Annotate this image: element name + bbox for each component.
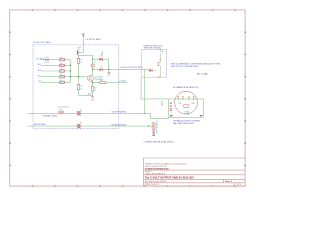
svg-text:+5 IN 5V BUS: +5 IN 5V BUS: [85, 39, 101, 41]
junction dot wire A / vertical: [144, 113, 145, 114]
resistor-box RB2 on wire 2: [60, 63, 65, 67]
capacitor C1: [57, 107, 69, 115]
diode D3 on wire A: [77, 109, 82, 115]
transistor Q3 in box B2: [158, 49, 163, 77]
svg-text:SIGNAL-N GND: SIGNAL-N GND: [43, 115, 58, 118]
wire A (upper ground rail): [28, 112, 145, 114]
svg-text:R4: R4: [100, 80, 102, 82]
wire R2 bottom to emitter node: [79, 90, 93, 96]
svg-text:Rev 1: Rev 1: [226, 181, 233, 183]
svg-text:1N48: 1N48: [102, 51, 104, 56]
transistor Q2 power (big circle): [88, 75, 104, 81]
svg-text:+5V IN 1: +5V IN 1: [35, 59, 45, 61]
svg-text:1k: 1k: [60, 69, 62, 71]
svg-text:1k: 1k: [94, 90, 96, 92]
diode D5 in box B2: [149, 69, 160, 79]
wire Q1 to J2: [92, 67, 94, 75]
svg-text:TAILORED TWITH MOD: TAILORED TWITH MOD: [173, 122, 195, 125]
speaker LS1 circle pair: [152, 122, 155, 129]
diode D2: [100, 67, 103, 72]
pin numbers bottom: [170, 115, 202, 117]
svg-text:EFF-TER S MODEL: EFF-TER S MODEL: [144, 48, 161, 50]
wire branch to socket top: [141, 77, 168, 99]
svg-text:TML: TML: [178, 103, 182, 105]
resistor-box RB1 on wire 1: [60, 57, 65, 61]
wire R1 to wire4: [78, 63, 80, 77]
svg-text:(+5V) B: (+5V) B: [44, 62, 50, 64]
transistor Q1 (small circle): [91, 62, 96, 68]
box: subsystem dashed box B1: [33, 45, 119, 128]
svg-text:D2: D2: [100, 67, 102, 69]
pin numbers top: [178, 95, 195, 98]
diode D1: [99, 51, 104, 61]
junction dot J4: [92, 82, 93, 83]
wire bus vertical: [69, 60, 71, 83]
junction dot J3: [108, 69, 109, 70]
resistor-box RB4 on wire 4: [60, 74, 65, 78]
wire A to socket bottom: [144, 113, 168, 118]
tube socket V1 big circle: [175, 91, 198, 114]
junction dot J2: [92, 69, 93, 70]
svg-text:1k: 1k: [60, 74, 62, 76]
resistor R1 (left chain top): [77, 55, 82, 64]
wire R3 to ground: [92, 91, 94, 96]
ground G1: [91, 97, 95, 102]
wire rail1 corner down: [143, 70, 145, 114]
svg-text:Q1: Q1: [94, 62, 96, 64]
junction dot J5: [78, 76, 79, 77]
frame tick dots top edge: [32, 9, 236, 10]
svg-text:Rev (Vol) 1 | Date 2018-05: Rev (Vol) 1 | Date 2018-05: [145, 180, 166, 183]
socket pins top: [178, 98, 194, 101]
svg-text:1k: 1k: [60, 57, 62, 59]
wire rail2: [93, 82, 127, 84]
svg-text:(+5V) L: (+5V) L: [120, 80, 128, 82]
svg-text:D4: D4: [80, 122, 82, 124]
svg-text:VCM5VOLT20FNA.SCM: VCM5VOLT20FNA.SCM: [145, 167, 169, 170]
resistor-box RB3 on wire 3: [60, 69, 65, 73]
svg-text:1/1: 1/1: [237, 184, 241, 186]
frame tick dots right edge: [245, 32, 247, 167]
svg-text:1k: 1k: [60, 80, 62, 82]
svg-text:1k: 1k: [60, 63, 62, 65]
title block box: [143, 158, 245, 186]
frame tick dots bottom edge: [32, 185, 236, 186]
resistor R4 horizontal on rail2: [100, 80, 106, 84]
svg-text:AC WA: AC WA: [197, 73, 208, 76]
wire B (lower ground rail): [28, 125, 149, 127]
svg-text:8 OHM DUAL SP: 8 OHM DUAL SP: [155, 119, 158, 134]
svg-text:CNC EXTRA GND: CNC EXTRA GND: [111, 111, 126, 114]
socket outline green rect: [169, 99, 204, 119]
junction dot J1: [92, 59, 93, 60]
junction dots on bus: [70, 65, 71, 78]
svg-text:The 5-VOLT OUTPUT AND 5V BUS 5: The 5-VOLT OUTPUT AND 5V BUS 520: [145, 176, 194, 180]
resistor R3 (emitter chain): [91, 86, 96, 92]
resistor-box RB5 on wire 5: [60, 80, 65, 84]
socket center rect: [184, 105, 189, 107]
box: module box B2: [142, 50, 167, 78]
svg-text:SG AUX-N GND: SG AUX-N GND: [111, 123, 126, 126]
wire rail A: [78, 54, 92, 56]
junction dot wire B end: [148, 125, 149, 126]
fuse F2 on wire 1: [44, 57, 50, 64]
svg-text:1k: 1k: [80, 88, 82, 90]
ground G2: [107, 70, 110, 78]
fuse F1 (purple component): [77, 50, 79, 55]
wire from power arrow down: [78, 36, 83, 52]
frame tick dots left edge: [9, 32, 11, 167]
svg-text:5VDC 5-VOL 1: 5VDC 5-VOL 1: [145, 184, 159, 186]
svg-text:TMR: TMR: [191, 103, 195, 105]
svg-text:240VAC: 240VAC: [160, 100, 163, 107]
svg-text:CONNECTED AS DUAL MONO: CONNECTED AS DUAL MONO: [144, 140, 175, 143]
svg-text:GND: GND: [91, 99, 95, 101]
speaker LS1 value text below: [152, 135, 155, 136]
border frame: [10, 10, 245, 186]
wire V1 top: [92, 55, 94, 64]
resistor R2 (left chain bottom): [77, 77, 82, 90]
socket left pin marks: [170, 103, 172, 111]
wire D1 branch: [93, 59, 109, 70]
speaker LS1 marks below: [152, 130, 155, 133]
power symbol +5 IN arrow: [82, 33, 85, 36]
wire rail1: [93, 69, 150, 71]
svg-text:+5 VOLT OUT 5V BUS: +5 VOLT OUT 5V BUS: [120, 67, 143, 69]
svg-text:D3: D3: [80, 109, 82, 111]
wire emitter: [92, 81, 94, 87]
wire connector lines W1-W5: [41, 60, 88, 83]
svg-text:BUS STYLE CUT IN AS USED: BUS STYLE CUT IN AS USED: [171, 65, 199, 68]
svg-text:B2: B2: [158, 77, 160, 79]
svg-text:AUX-N GND: AUX-N GND: [34, 123, 46, 126]
svg-text:2k: 2k: [80, 62, 82, 64]
svg-text:AC MAINS DRIVE SELECTOR: AC MAINS DRIVE SELECTOR: [173, 86, 199, 89]
wire B stub to LS1: [149, 125, 152, 127]
svg-text:5-VOLT S/Y BUS: 5-VOLT S/Y BUS: [33, 42, 51, 44]
diode D4 on wire B: [77, 122, 82, 128]
